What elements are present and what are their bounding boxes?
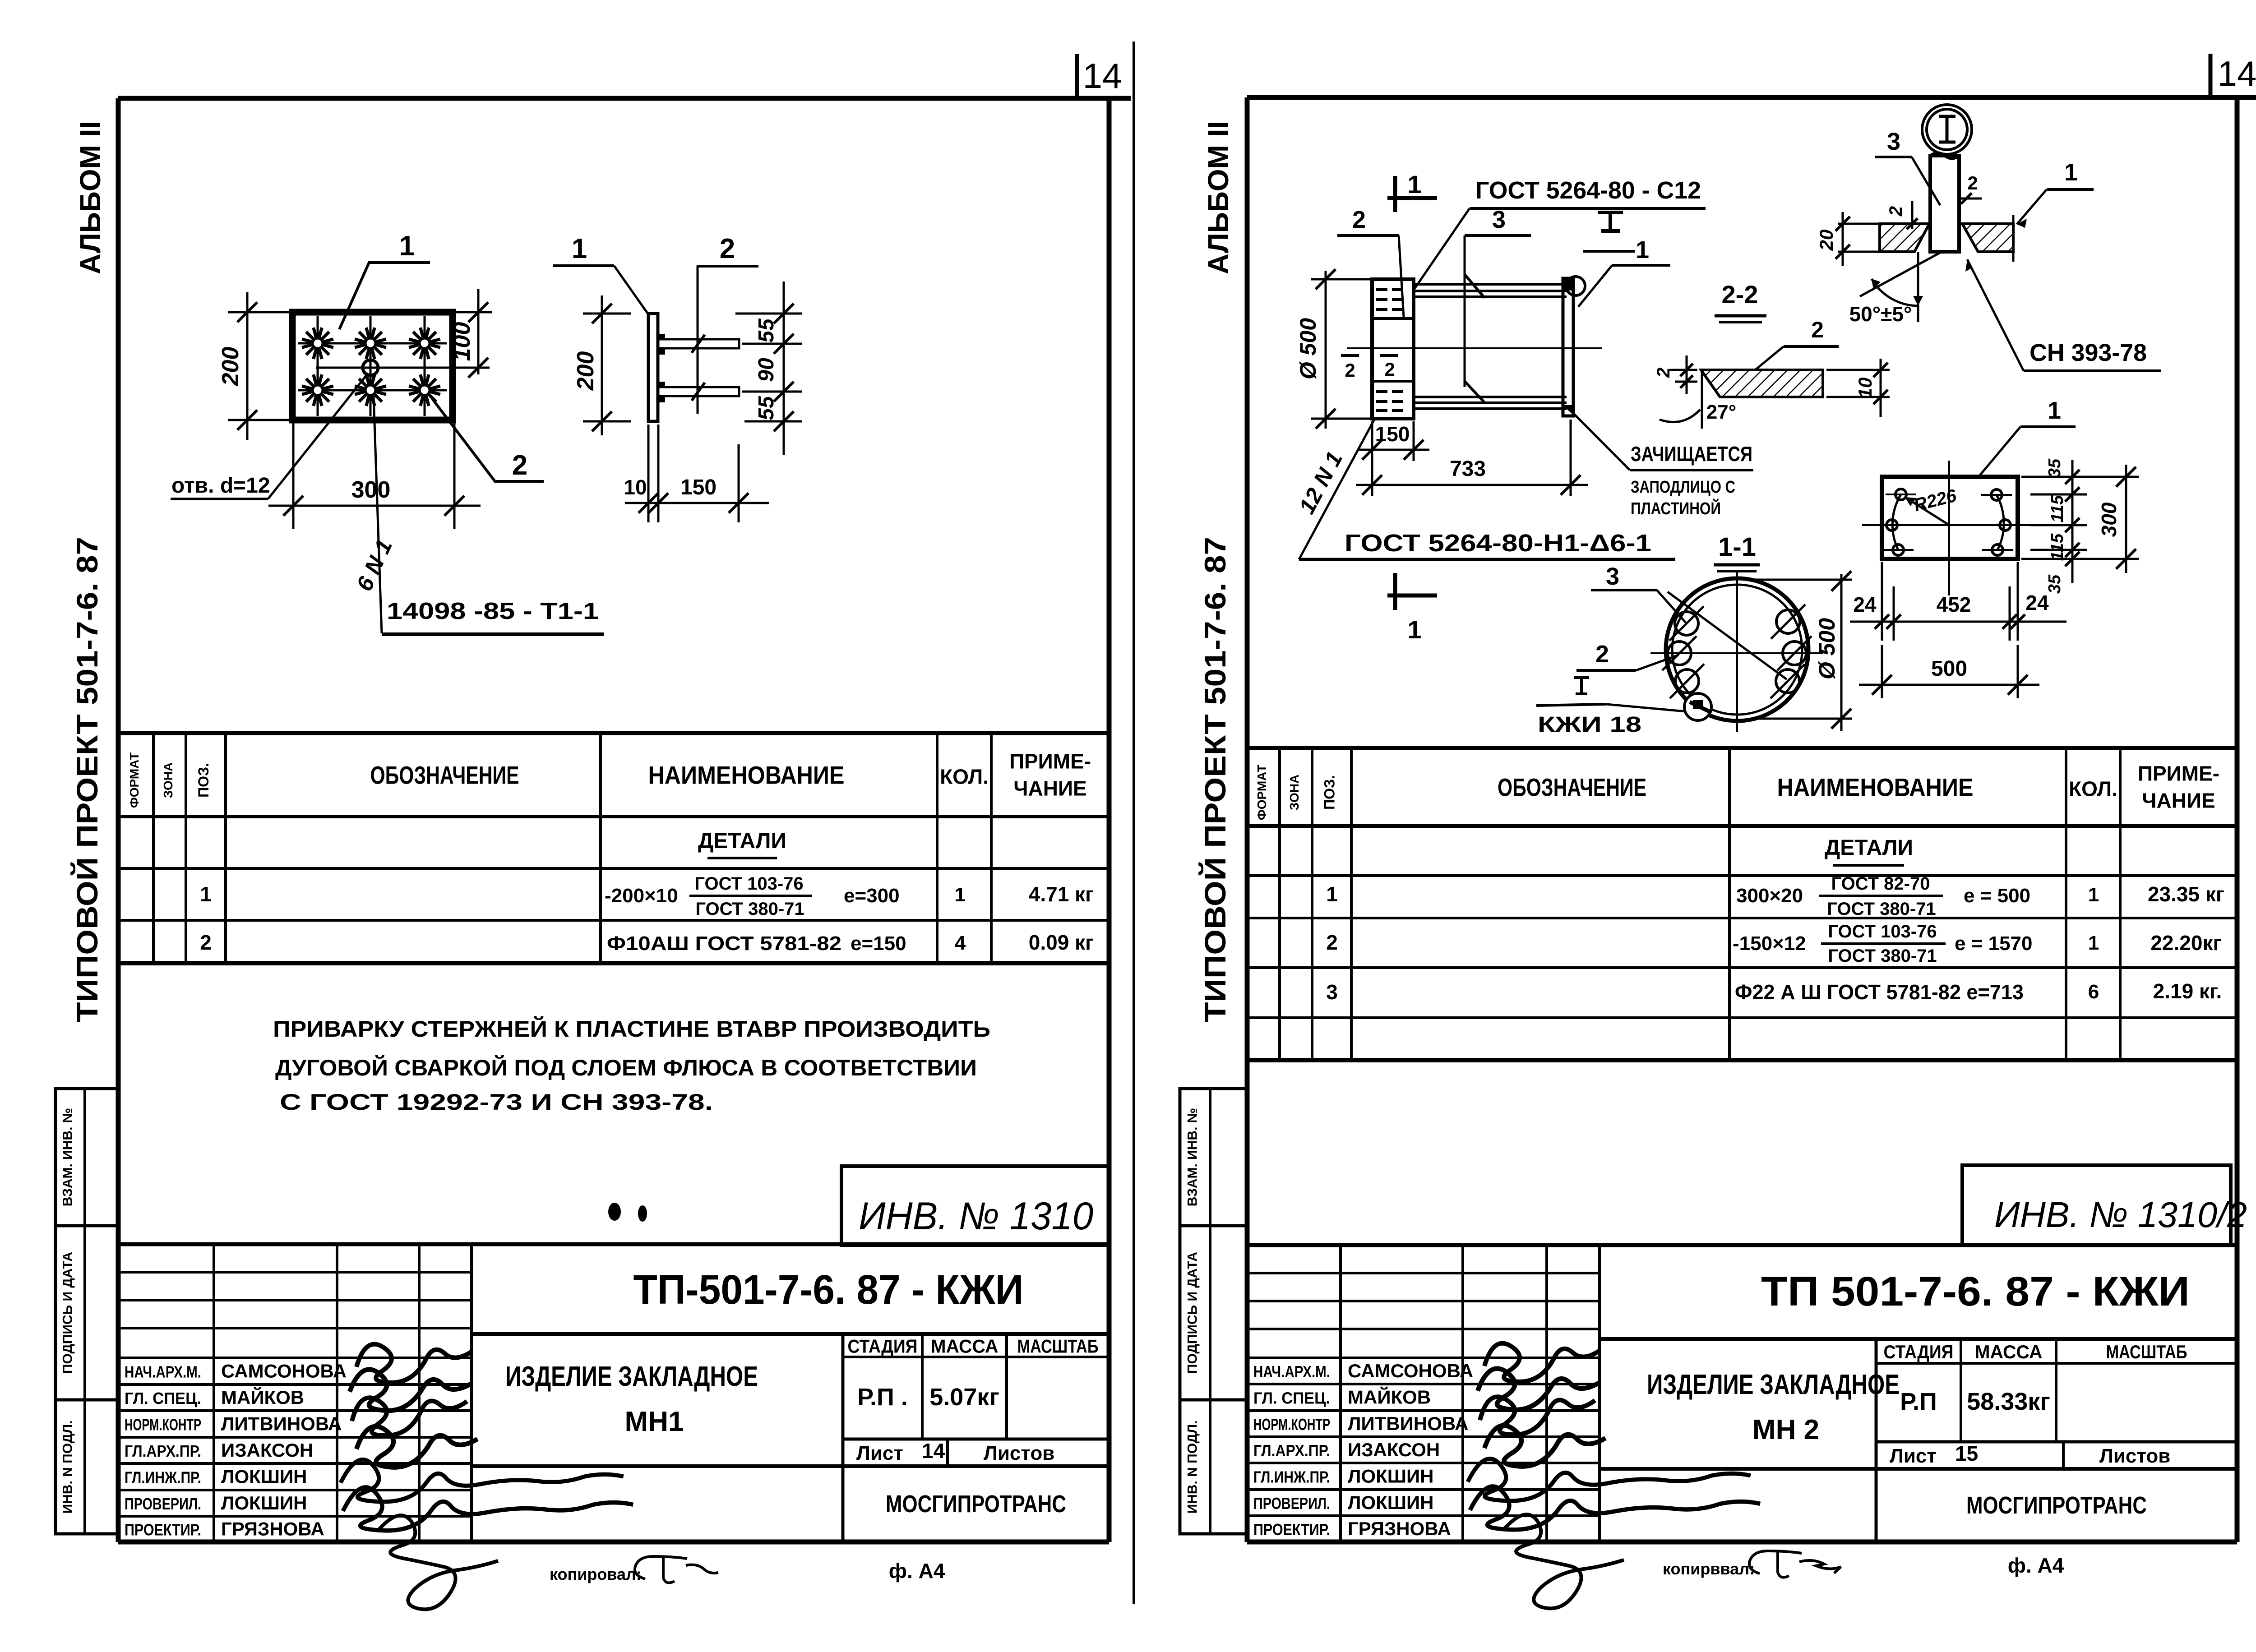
svg-text:150: 150 xyxy=(1375,422,1410,446)
svg-text:МОСГИПРОТРАНС: МОСГИПРОТРАНС xyxy=(886,1490,1066,1518)
svg-text:-150×12: -150×12 xyxy=(1733,932,1806,955)
svg-text:2: 2 xyxy=(1654,368,1674,378)
svg-text:23.35 кг: 23.35 кг xyxy=(2148,882,2224,906)
svg-text:ДУГОВОЙ СВАРКОЙ ПОД СЛОЕМ: ДУГОВОЙ СВАРКОЙ ПОД СЛОЕМ ФЛЮСА В СООТВЕ… xyxy=(275,1055,977,1080)
svg-text:КОЛ.: КОЛ. xyxy=(2069,777,2117,801)
svg-text:14: 14 xyxy=(922,1439,945,1463)
svg-text:ГЛ.ИНЖ.ПР.: ГЛ.ИНЖ.ПР. xyxy=(1253,1468,1330,1486)
svg-text:1: 1 xyxy=(572,233,587,264)
svg-text:ИНВ. № 1310: ИНВ. № 1310 xyxy=(859,1195,1093,1238)
svg-text:2: 2 xyxy=(1345,360,1355,381)
svg-text:МОСГИПРОТРАНС: МОСГИПРОТРАНС xyxy=(1966,1492,2147,1519)
svg-text:ЧАНИЕ: ЧАНИЕ xyxy=(2142,789,2215,812)
svg-text:Ø 500: Ø 500 xyxy=(1295,318,1321,379)
svg-text:ВЗАМ. ИНВ. №: ВЗАМ. ИНВ. № xyxy=(1185,1108,1200,1206)
svg-text:24: 24 xyxy=(2025,591,2049,614)
svg-text:10: 10 xyxy=(624,475,647,499)
svg-text:2: 2 xyxy=(1384,359,1395,380)
svg-text:ПРОВЕРИЛ.: ПРОВЕРИЛ. xyxy=(1253,1494,1330,1513)
svg-text:МАЙКОВ: МАЙКОВ xyxy=(221,1386,304,1408)
svg-text:e = 1570: e = 1570 xyxy=(1955,932,2033,955)
svg-text:ПОЗ.: ПОЗ. xyxy=(195,763,212,798)
svg-text:2: 2 xyxy=(1326,931,1338,954)
svg-text:ПРОЕКТИР.: ПРОЕКТИР. xyxy=(1253,1520,1330,1539)
svg-text:150: 150 xyxy=(680,475,717,499)
svg-text:Лист: Лист xyxy=(1890,1445,1937,1467)
svg-text:ИНВ. N ПОДЛ.: ИНВ. N ПОДЛ. xyxy=(1185,1421,1200,1514)
svg-text:АЛЬБОМ II: АЛЬБОМ II xyxy=(1202,121,1234,274)
svg-text:2-2: 2-2 xyxy=(1722,280,1758,309)
svg-text:115: 115 xyxy=(2048,495,2067,522)
svg-text:ТП 501-7-6. 87 - КЖИ: ТП 501-7-6. 87 - КЖИ xyxy=(1761,1269,2190,1315)
svg-text:2: 2 xyxy=(200,931,212,954)
svg-text:ПРОЕКТИР.: ПРОЕКТИР. xyxy=(125,1521,201,1539)
svg-text:ЛОКШИН: ЛОКШИН xyxy=(1348,1466,1434,1487)
svg-text:3: 3 xyxy=(1887,128,1900,155)
svg-text:Лист: Лист xyxy=(856,1442,903,1464)
svg-text:1: 1 xyxy=(2064,159,2078,186)
svg-text:ПРИМЕ-: ПРИМЕ- xyxy=(1009,750,1091,773)
svg-text:2: 2 xyxy=(1811,317,1824,342)
svg-text:ЗАЧИЩАЕТСЯ: ЗАЧИЩАЕТСЯ xyxy=(1631,442,1752,466)
svg-text:ИЗАКСОН: ИЗАКСОН xyxy=(1348,1439,1440,1460)
svg-text:Листов: Листов xyxy=(2099,1445,2170,1467)
svg-text:ДЕТАЛИ: ДЕТАЛИ xyxy=(698,829,786,853)
svg-text:МАЙКОВ: МАЙКОВ xyxy=(1348,1386,1431,1408)
svg-text:КЖИ 18: КЖИ 18 xyxy=(1538,713,1641,737)
svg-text:733: 733 xyxy=(1450,457,1486,481)
svg-text:2: 2 xyxy=(1595,641,1609,668)
svg-text:ВЗАМ. ИНВ. №: ВЗАМ. ИНВ. № xyxy=(60,1108,75,1206)
svg-text:300: 300 xyxy=(351,477,391,503)
svg-text:МН 2: МН 2 xyxy=(1752,1414,1819,1445)
svg-text:Ф22 А Ш ГОСТ 5781-82 e=713: Ф22 А Ш ГОСТ 5781-82 e=713 xyxy=(1735,980,2024,1004)
svg-text:ПЛАСТИНОЙ: ПЛАСТИНОЙ xyxy=(1631,498,1721,518)
svg-text:2: 2 xyxy=(512,450,527,481)
svg-text:4: 4 xyxy=(955,932,966,954)
svg-text:ГОСТ 82-70: ГОСТ 82-70 xyxy=(1831,874,1930,894)
svg-text:15: 15 xyxy=(1955,1442,1978,1465)
svg-text:ТИПОВОЙ ПРОЕКТ 501-7-6. 87: ТИПОВОЙ ПРОЕКТ 501-7-6. 87 xyxy=(1198,537,1232,1022)
svg-text:копирввал:: копирввал: xyxy=(1663,1560,1755,1578)
svg-text:САМСОНОВА: САМСОНОВА xyxy=(1348,1360,1473,1381)
svg-text:300: 300 xyxy=(2097,502,2121,537)
svg-text:ФОРМАТ: ФОРМАТ xyxy=(127,752,141,808)
svg-text:3: 3 xyxy=(1492,206,1506,233)
svg-text:АЛЬБОМ II: АЛЬБОМ II xyxy=(74,121,106,274)
svg-text:1: 1 xyxy=(955,884,966,906)
svg-text:ИНВ. N ПОДЛ.: ИНВ. N ПОДЛ. xyxy=(60,1421,75,1514)
svg-text:ЛОКШИН: ЛОКШИН xyxy=(221,1492,307,1514)
svg-text:20: 20 xyxy=(1816,230,1837,251)
svg-text:ГОСТ 5264-80-Н1-Δ6-1: ГОСТ 5264-80-Н1-Δ6-1 xyxy=(1345,530,1651,557)
svg-text:1: 1 xyxy=(1636,236,1649,263)
svg-text:100: 100 xyxy=(449,322,475,361)
svg-text:500: 500 xyxy=(1931,657,1967,681)
svg-text:2: 2 xyxy=(1886,206,1906,217)
svg-text:ГОСТ 380-71: ГОСТ 380-71 xyxy=(1828,946,1937,966)
svg-text:ЛОКШИН: ЛОКШИН xyxy=(1348,1492,1434,1513)
svg-text:Р.П .: Р.П . xyxy=(857,1384,908,1411)
svg-text:ГЛ.АРХ.ПР.: ГЛ.АРХ.ПР. xyxy=(1253,1441,1330,1460)
svg-text:1: 1 xyxy=(200,882,212,906)
svg-text:ПОЗ.: ПОЗ. xyxy=(1322,775,1338,810)
svg-text:САМСОНОВА: САМСОНОВА xyxy=(221,1361,347,1382)
svg-text:24: 24 xyxy=(1853,593,1877,616)
svg-text:С ГОСТ 19292-73 И СН 393-7: С ГОСТ 19292-73 И СН 393-78. xyxy=(280,1089,713,1115)
svg-text:14: 14 xyxy=(1083,56,1122,96)
svg-text:1: 1 xyxy=(2088,932,2099,954)
svg-text:ЗОНА: ЗОНА xyxy=(161,762,175,798)
svg-text:ГРЯЗНОВА: ГРЯЗНОВА xyxy=(221,1518,324,1540)
svg-text:ПРИВАРКУ СТЕРЖНЕЙ К ПЛАСТИ: ПРИВАРКУ СТЕРЖНЕЙ К ПЛАСТИНЕ ВТАВР ПРОИЗ… xyxy=(273,1016,990,1042)
svg-text:55: 55 xyxy=(754,318,778,343)
svg-text:ГОСТ 380-71: ГОСТ 380-71 xyxy=(1827,899,1936,919)
svg-text:6: 6 xyxy=(2088,981,2099,1003)
svg-text:ТИПОВОЙ ПРОЕКТ 501-7-6. 87: ТИПОВОЙ ПРОЕКТ 501-7-6. 87 xyxy=(70,537,104,1022)
svg-text:14: 14 xyxy=(2218,54,2256,93)
svg-text:1: 1 xyxy=(2088,884,2099,906)
svg-text:НАЧ.АРХ.М.: НАЧ.АРХ.М. xyxy=(125,1363,201,1381)
svg-text:1: 1 xyxy=(1407,170,1421,198)
svg-text:300×20: 300×20 xyxy=(1736,885,1803,907)
svg-text:ГРЯЗНОВА: ГРЯЗНОВА xyxy=(1348,1518,1451,1539)
svg-text:Р.П: Р.П xyxy=(1900,1388,1937,1415)
svg-text:2.19 кг.: 2.19 кг. xyxy=(2153,979,2222,1003)
svg-text:ОБОЗНАЧЕНИЕ: ОБОЗНАЧЕНИЕ xyxy=(370,761,519,789)
svg-text:1: 1 xyxy=(1326,882,1338,906)
svg-text:СН 393-78: СН 393-78 xyxy=(2029,339,2147,366)
svg-text:МН1: МН1 xyxy=(625,1406,684,1437)
svg-text:27°: 27° xyxy=(1706,401,1737,423)
svg-text:2: 2 xyxy=(720,233,735,264)
svg-text:ф. А4: ф. А4 xyxy=(2008,1554,2064,1577)
svg-text:ПОДПИСЬ И ДАТА: ПОДПИСЬ И ДАТА xyxy=(1185,1252,1200,1374)
svg-text:ИЗДЕЛИЕ ЗАКЛАДНОЕ: ИЗДЕЛИЕ ЗАКЛАДНОЕ xyxy=(1647,1369,1900,1400)
svg-text:копировал:: копировал: xyxy=(550,1565,642,1583)
svg-text:ЗАПОДЛИЦО С: ЗАПОДЛИЦО С xyxy=(1631,478,1735,497)
svg-text:ГОСТ 103-76: ГОСТ 103-76 xyxy=(1828,922,1937,941)
svg-text:200: 200 xyxy=(217,347,244,387)
svg-text:ОБОЗНАЧЕНИЕ: ОБОЗНАЧЕНИЕ xyxy=(1498,773,1646,802)
svg-text:3: 3 xyxy=(1606,563,1619,590)
svg-text:35: 35 xyxy=(2045,458,2064,478)
svg-text:e=300: e=300 xyxy=(844,885,900,907)
svg-text:1: 1 xyxy=(2048,397,2061,424)
svg-text:ПРОВЕРИЛ.: ПРОВЕРИЛ. xyxy=(125,1495,201,1513)
svg-text:МАСШТАБ: МАСШТАБ xyxy=(2106,1341,2187,1362)
svg-text:ГЛ.ИНЖ.ПР.: ГЛ.ИНЖ.ПР. xyxy=(125,1468,201,1487)
svg-text:3: 3 xyxy=(1326,980,1338,1004)
svg-text:ЧАНИЕ: ЧАНИЕ xyxy=(1013,777,1087,800)
svg-text:Ø 500: Ø 500 xyxy=(1814,618,1840,679)
svg-text:14098 -85 - Т1-1: 14098 -85 - Т1-1 xyxy=(387,598,599,624)
svg-text:Ф10АШ ГОСТ 5781-82: Ф10АШ ГОСТ 5781-82 xyxy=(607,932,841,955)
svg-text:ЛИТВИНОВА: ЛИТВИНОВА xyxy=(221,1413,342,1435)
svg-text:МАССА: МАССА xyxy=(1975,1341,2043,1362)
svg-text:МАССА: МАССА xyxy=(931,1336,999,1357)
svg-text:115: 115 xyxy=(2048,533,2067,561)
svg-text:22.20кг: 22.20кг xyxy=(2150,931,2221,955)
svg-text:200: 200 xyxy=(573,351,599,391)
svg-text:ИЗДЕЛИЕ ЗАКЛАДНОЕ: ИЗДЕЛИЕ ЗАКЛАДНОЕ xyxy=(505,1361,758,1392)
svg-text:НОРМ.КОНТР: НОРМ.КОНТР xyxy=(1253,1415,1330,1434)
svg-text:ГОСТ 103-76: ГОСТ 103-76 xyxy=(694,874,803,894)
svg-text:2: 2 xyxy=(1352,206,1366,233)
svg-text:ГЛ. СПЕЦ.: ГЛ. СПЕЦ. xyxy=(1253,1389,1330,1407)
svg-text:1-1: 1-1 xyxy=(1718,532,1756,562)
svg-text:ПРИМЕ-: ПРИМЕ- xyxy=(2138,762,2219,785)
svg-text:ЛОКШИН: ЛОКШИН xyxy=(221,1466,307,1487)
svg-text:ЗОНА: ЗОНА xyxy=(1287,775,1301,810)
svg-text:ГЛ.АРХ.ПР.: ГЛ.АРХ.ПР. xyxy=(125,1442,201,1460)
svg-text:СТАДИЯ: СТАДИЯ xyxy=(848,1336,918,1357)
svg-text:ф. А4: ф. А4 xyxy=(889,1559,945,1583)
svg-text:ПОДПИСЬ И ДАТА: ПОДПИСЬ И ДАТА xyxy=(60,1252,75,1374)
svg-text:-200×10: -200×10 xyxy=(605,885,678,907)
svg-text:e = 500: e = 500 xyxy=(1964,885,2030,907)
svg-text:НАИМЕНОВАНИЕ: НАИМЕНОВАНИЕ xyxy=(648,761,845,789)
svg-text:НАИМЕНОВАНИЕ: НАИМЕНОВАНИЕ xyxy=(1777,773,1974,802)
svg-text:НОРМ.КОНТР: НОРМ.КОНТР xyxy=(125,1416,201,1434)
svg-text:0.09 кг: 0.09 кг xyxy=(1029,931,1094,954)
svg-text:2: 2 xyxy=(1967,172,1978,194)
svg-text:КОЛ.: КОЛ. xyxy=(940,765,989,789)
svg-text:55: 55 xyxy=(754,396,778,420)
svg-text:1: 1 xyxy=(399,231,415,262)
svg-text:10: 10 xyxy=(1854,378,1876,399)
svg-text:ГОСТ 380-71: ГОСТ 380-71 xyxy=(695,899,804,919)
svg-text:ГЛ. СПЕЦ.: ГЛ. СПЕЦ. xyxy=(125,1389,201,1407)
svg-text:90: 90 xyxy=(754,358,778,382)
svg-text:1: 1 xyxy=(1407,615,1421,644)
svg-text:ГОСТ 5264-80 - С12: ГОСТ 5264-80 - С12 xyxy=(1475,177,1701,204)
svg-text:Листов: Листов xyxy=(984,1442,1054,1464)
svg-text:ИНВ. № 1310/2: ИНВ. № 1310/2 xyxy=(1994,1195,2247,1235)
svg-text:ЛИТВИНОВА: ЛИТВИНОВА xyxy=(1348,1413,1468,1434)
svg-text:5.07кг: 5.07кг xyxy=(929,1384,999,1411)
svg-text:ФОРМАТ: ФОРМАТ xyxy=(1255,765,1269,820)
svg-text:ТП-501-7-6. 87 - КЖИ: ТП-501-7-6. 87 - КЖИ xyxy=(633,1267,1024,1313)
svg-text:МАСШТАБ: МАСШТАБ xyxy=(1017,1336,1099,1357)
svg-text:58.33кг: 58.33кг xyxy=(1967,1388,2050,1415)
svg-text:отв. d=12: отв. d=12 xyxy=(171,474,270,498)
svg-text:4.71 кг: 4.71 кг xyxy=(1029,882,1094,906)
svg-text:СТАДИЯ: СТАДИЯ xyxy=(1884,1341,1954,1362)
svg-text:ИЗАКСОН: ИЗАКСОН xyxy=(221,1440,313,1461)
svg-text:ДЕТАЛИ: ДЕТАЛИ xyxy=(1825,836,1913,860)
svg-text:50°±5°: 50°±5° xyxy=(1849,302,1912,326)
svg-text:e=150: e=150 xyxy=(851,932,906,955)
svg-text:НАЧ.АРХ.М.: НАЧ.АРХ.М. xyxy=(1253,1362,1330,1381)
svg-text:452: 452 xyxy=(1937,593,1971,616)
